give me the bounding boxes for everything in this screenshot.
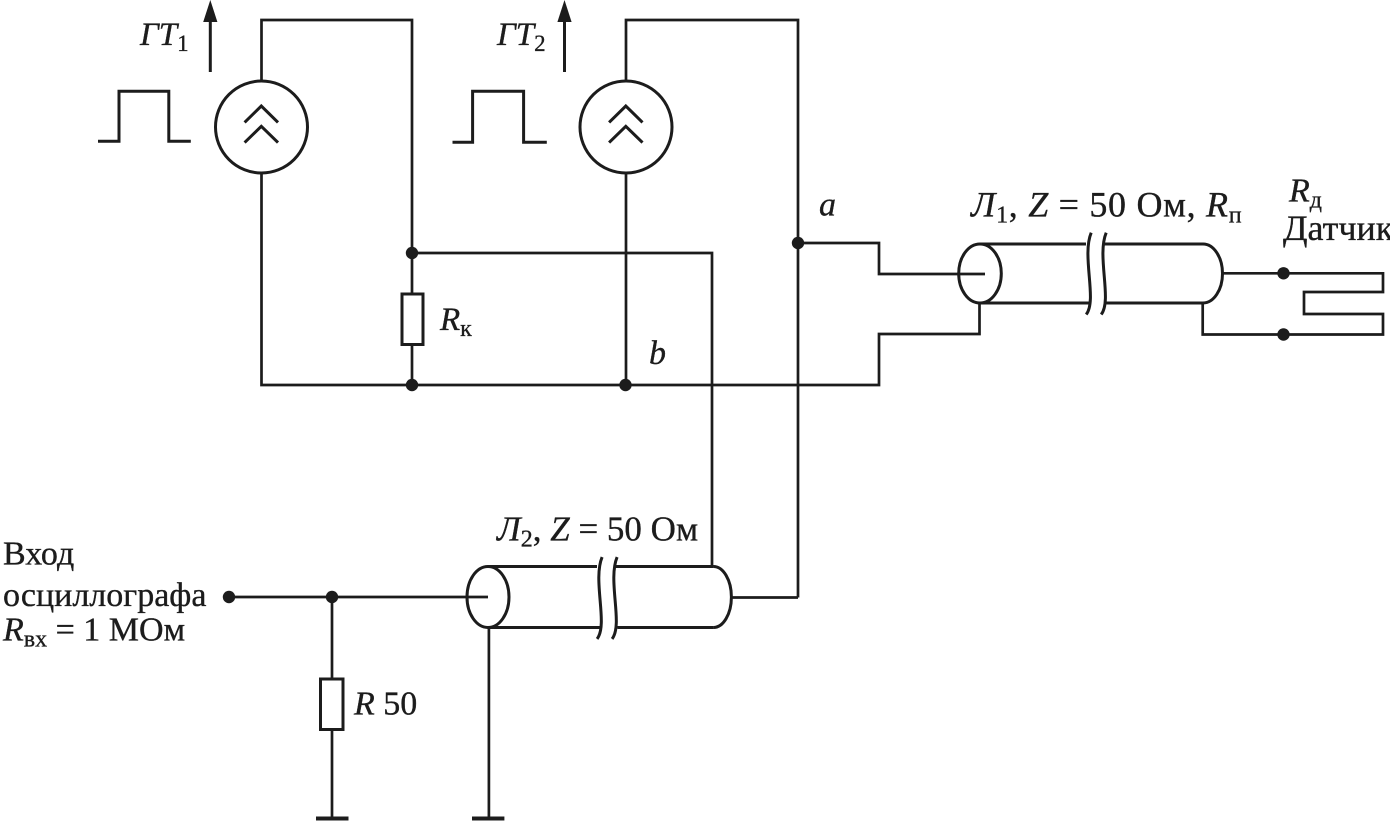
right cap of Л2 [713, 567, 731, 628]
resistor Rк [402, 294, 423, 345]
ground under Л2 shield [472, 817, 504, 821]
wire ГТ2 bottom lead down to node b [625, 173, 628, 385]
break mark on Л2 [597, 557, 617, 639]
wire ГТ1 top lead up, right and down to Rк top [262, 20, 413, 294]
svg-text:ГТ1: ГТ1 [139, 17, 189, 56]
top shield line of Л1 [980, 243, 1203, 246]
junction dot at Rк bottom on rail [406, 379, 418, 391]
coax line Л2 body [467, 557, 731, 639]
current source circle U2 (ГТ2) [580, 81, 672, 173]
chevron arrows inside ГТ1 [245, 106, 278, 143]
wire Л2 right inner conductor to vertical [731, 596, 798, 599]
svg-text:ГТ2: ГТ2 [496, 17, 546, 56]
left ellipse of Л1 [959, 244, 1002, 303]
node b junction dot [619, 379, 631, 391]
svg-text:Вход: Вход [3, 536, 74, 573]
svg-text:осциллографа: осциллографа [3, 577, 206, 614]
bottom shield line of Л2 [488, 626, 713, 629]
wire from Rк top node right and down to Л2 top shield [412, 253, 712, 567]
wire ГТ1 bottom lead and bottom rail to Л1 shield [262, 173, 980, 385]
wire Л2 shield to ground [488, 628, 491, 818]
right cap of Л1 [1203, 244, 1223, 303]
svg-text:Датчик: Датчик [1283, 208, 1390, 248]
junction dot at R50 top [326, 591, 338, 603]
svg-text:b: b [649, 335, 666, 372]
svg-text:a: a [819, 187, 836, 224]
input terminal dot [223, 591, 235, 603]
svg-text:Rк: Rк [439, 302, 472, 342]
junction dot at Rк top [406, 247, 418, 259]
current source circle U1 (ГТ1) [216, 81, 308, 173]
arrow of generator ГТ2 [557, 0, 571, 72]
node a junction dot [792, 237, 804, 249]
junction dot sensor top [1277, 267, 1289, 279]
pulse waveform symbol of ГТ2 [453, 91, 547, 142]
svg-text:Л2, Z = 50 Ом: Л2, Z = 50 Ом [496, 510, 698, 553]
wire R50 bottom lead to ground [331, 730, 334, 818]
wire oscilloscope input to Л2 left inner conductor [229, 596, 488, 599]
wire Rк bottom lead [411, 345, 414, 386]
wire node a to Л1 inner conductor [798, 243, 985, 274]
break mark on Л1 [1086, 233, 1106, 315]
bottom shield line of Л1 [980, 302, 1203, 305]
left ellipse of Л2 [467, 567, 509, 628]
junction dot sensor bottom [1277, 328, 1289, 340]
chevron arrows inside ГТ2 [609, 106, 642, 143]
ground under R50 [316, 817, 349, 821]
wire Л1 inner conductor right to sensor and meander back [1203, 273, 1383, 334]
wire ГТ2 top lead up, right and down through node a to Л2 right inner conductor [626, 20, 798, 598]
top shield line of Л2 [488, 565, 713, 568]
arrow of generator ГТ1 [203, 0, 217, 72]
svg-text:R 50: R 50 [353, 686, 417, 723]
label Вход осциллографа Rвх = 1 МОм [2, 536, 206, 653]
resistor R50 [321, 679, 344, 730]
pulse waveform symbol of ГТ1 [98, 91, 191, 141]
coax line Л1 body [959, 233, 1223, 315]
svg-text:Л1, Z = 50 Ом, Rп: Л1, Z = 50 Ом, Rп [970, 185, 1242, 229]
wire R50 top lead [331, 597, 334, 679]
svg-text:Rвх = 1 МОм: Rвх = 1 МОм [2, 612, 185, 653]
